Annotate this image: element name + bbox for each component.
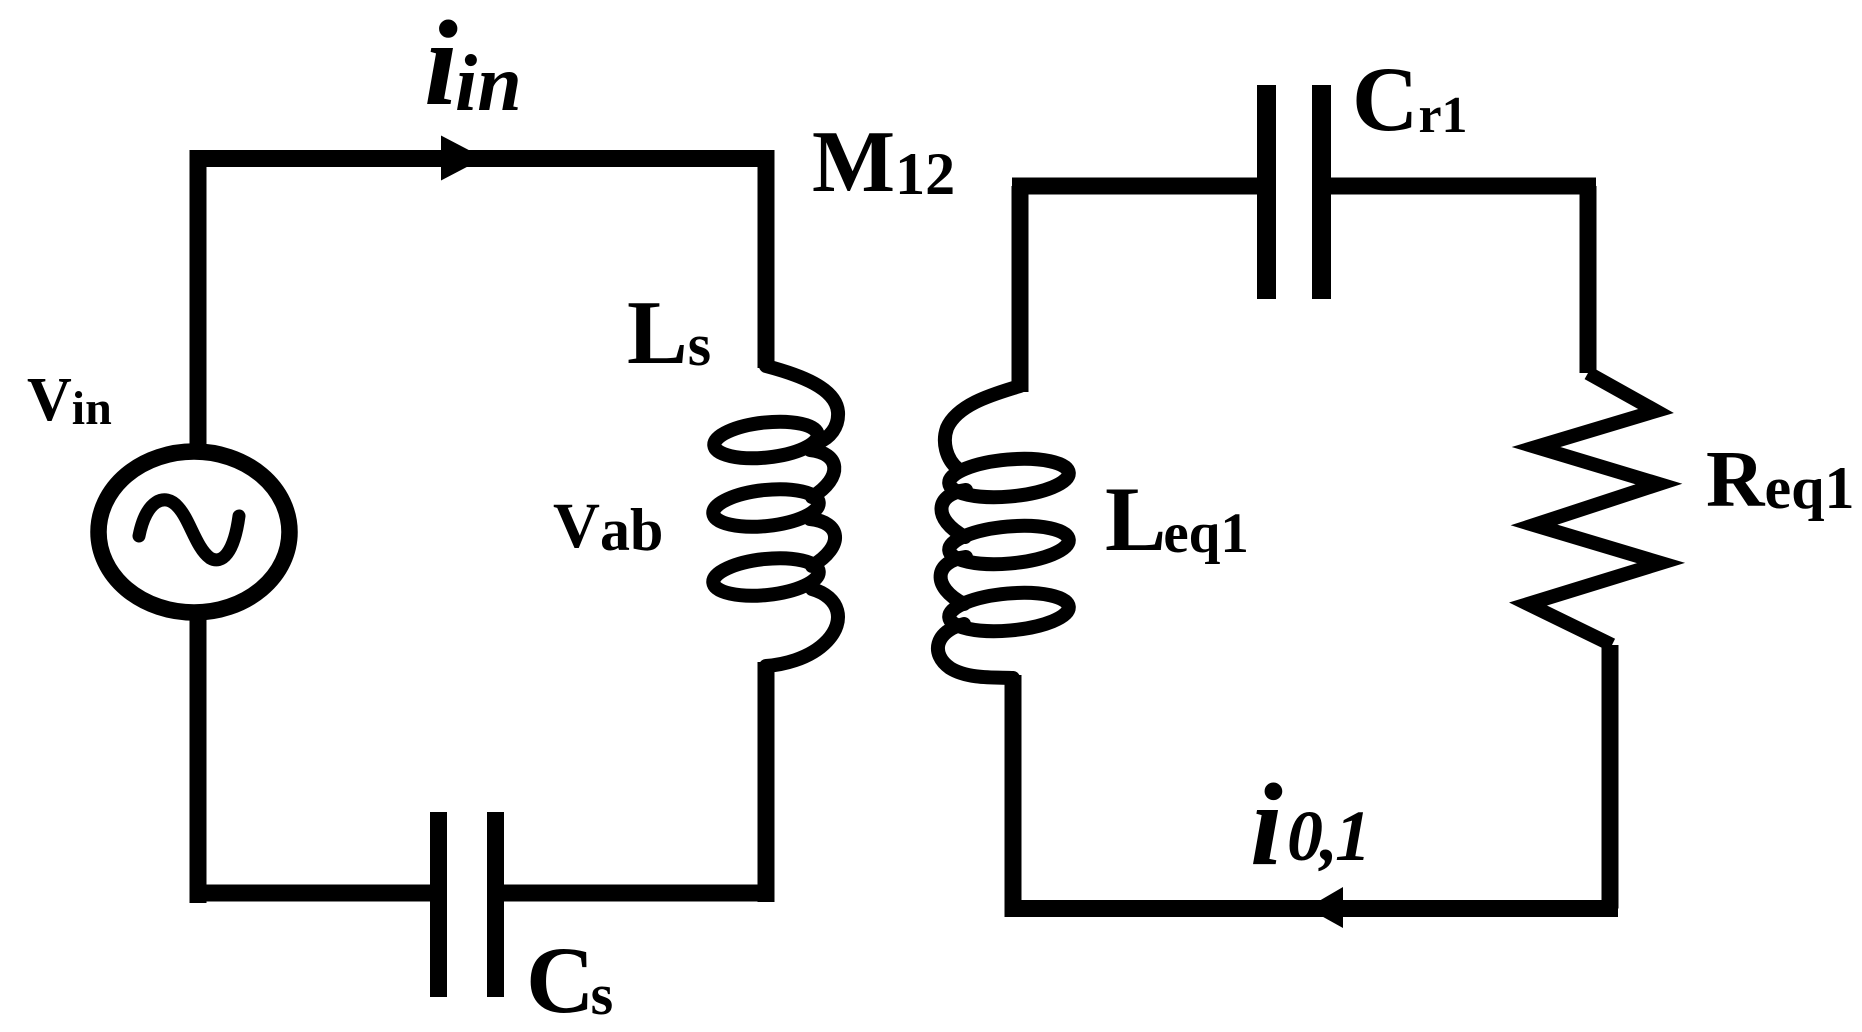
svg-text:Cr1: Cr1 [1352,48,1468,150]
svg-text:Ls: Ls [627,282,711,383]
svg-text:0,1: 0,1 [1287,796,1368,876]
svg-text:Cs: Cs [526,927,613,1032]
svg-text:i: i [1250,759,1283,890]
svg-text:i: i [424,0,458,131]
svg-text:M12: M12 [812,114,955,211]
svg-text:in: in [455,40,522,128]
svg-text:Vab: Vab [553,490,663,563]
svg-text:Leq1: Leq1 [1105,468,1249,570]
svg-text:Vin: Vin [27,366,112,435]
svg-text:Req1: Req1 [1706,434,1855,524]
